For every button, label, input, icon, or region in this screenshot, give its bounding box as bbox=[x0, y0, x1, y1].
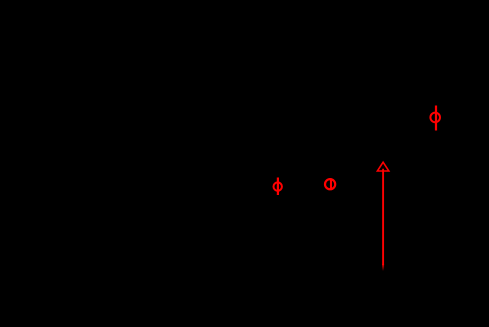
current arrow I1 bbox=[377, 162, 388, 271]
voltage probe V2 bbox=[325, 178, 335, 190]
voltage probe V3 bbox=[430, 106, 440, 131]
voltage probe V1 bbox=[274, 178, 282, 196]
